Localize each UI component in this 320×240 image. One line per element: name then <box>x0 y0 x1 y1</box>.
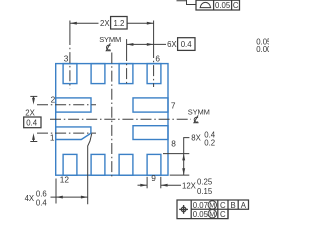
package outline <box>56 64 168 176</box>
svg-text:9: 9 <box>151 173 156 183</box>
svg-text:0.6: 0.6 <box>36 189 47 198</box>
svg-text:SYMM: SYMM <box>99 35 121 44</box>
svg-text:0.4: 0.4 <box>181 40 193 49</box>
pad 11 (bottom) <box>91 154 105 175</box>
pin 1 centerline <box>37 132 96 134</box>
svg-text:B: B <box>231 201 236 210</box>
svg-text:6: 6 <box>155 53 160 63</box>
svg-text:8X: 8X <box>191 133 201 142</box>
svg-text:C: C <box>233 1 239 10</box>
pad 6 (top) <box>147 64 161 84</box>
svg-text:M: M <box>209 201 215 210</box>
svg-text:2: 2 <box>51 95 56 105</box>
dimension 2X 0.4 (left) <box>30 95 37 97</box>
dimension 8X 0.4/0.2 (right) <box>163 153 189 155</box>
svg-text:0.07: 0.07 <box>193 201 208 210</box>
svg-text:0.4: 0.4 <box>26 119 38 128</box>
pad 10 (bottom) <box>119 154 133 175</box>
centerline glyph right <box>194 115 199 122</box>
extension line pad6 center <box>153 21 155 48</box>
bottom feature control frame: position 0.07 M C B A / 0.05 M C <box>177 200 249 219</box>
svg-text:3: 3 <box>64 53 69 63</box>
svg-text:0.00: 0.00 <box>256 45 269 54</box>
svg-text:12: 12 <box>60 174 70 184</box>
svg-text:1: 1 <box>50 133 55 143</box>
profile-of-surface symbol <box>200 2 212 7</box>
svg-text:8: 8 <box>171 139 176 149</box>
svg-text:0.05: 0.05 <box>193 210 209 219</box>
svg-text:0.2: 0.2 <box>204 138 215 147</box>
pad 8 (right) <box>133 126 168 140</box>
svg-text:12X: 12X <box>182 181 197 190</box>
extension line pad5 center <box>126 39 128 50</box>
svg-text:M: M <box>209 209 215 218</box>
top feature control frame: profile of surface 0.05 C <box>177 0 197 5</box>
pin 2 centerline <box>37 104 96 106</box>
M circle row2 <box>208 210 216 218</box>
horizontal symmetry centerline <box>50 118 191 120</box>
pad 4 (top) <box>91 64 105 84</box>
centerline glyph top <box>106 43 111 50</box>
M circle row1 <box>208 201 216 209</box>
svg-text:0.15: 0.15 <box>197 187 213 196</box>
vertical symmetry centerline <box>111 53 113 180</box>
pad 12 (bottom) <box>63 154 77 175</box>
pad 1 (left, chamfered pin-1 indicator) <box>56 127 91 140</box>
svg-text:C: C <box>220 210 226 219</box>
svg-text:0.25: 0.25 <box>197 177 213 186</box>
pad 5 (top) <box>119 64 133 84</box>
svg-text:7: 7 <box>171 101 176 111</box>
svg-text:0.4: 0.4 <box>36 198 48 207</box>
pad 2 (left) <box>56 98 91 112</box>
svg-text:SYMM: SYMM <box>188 108 210 117</box>
position symbol <box>179 205 188 214</box>
svg-text:2X: 2X <box>100 19 110 28</box>
svg-text:0.05: 0.05 <box>215 1 231 10</box>
pad 9 (bottom) <box>147 154 161 175</box>
dimension 4X 0.6/0.4 (bottom left) <box>55 179 57 204</box>
svg-text:A: A <box>241 201 247 210</box>
extension line pad3 center <box>69 21 71 35</box>
dimension 2X 1.2 (top) <box>70 22 99 24</box>
svg-text:1.2: 1.2 <box>114 19 125 28</box>
svg-text:C: C <box>220 201 226 210</box>
pad 7 (right) <box>133 98 168 112</box>
dimension 12X 0.25/0.15 (bottom) <box>146 177 148 189</box>
svg-text:6X: 6X <box>167 40 177 49</box>
svg-text:4X: 4X <box>25 194 35 203</box>
svg-text:2X: 2X <box>25 109 35 118</box>
dimension 6X 0.4 (top right) <box>127 43 166 45</box>
pad 3 (top) <box>63 64 77 84</box>
